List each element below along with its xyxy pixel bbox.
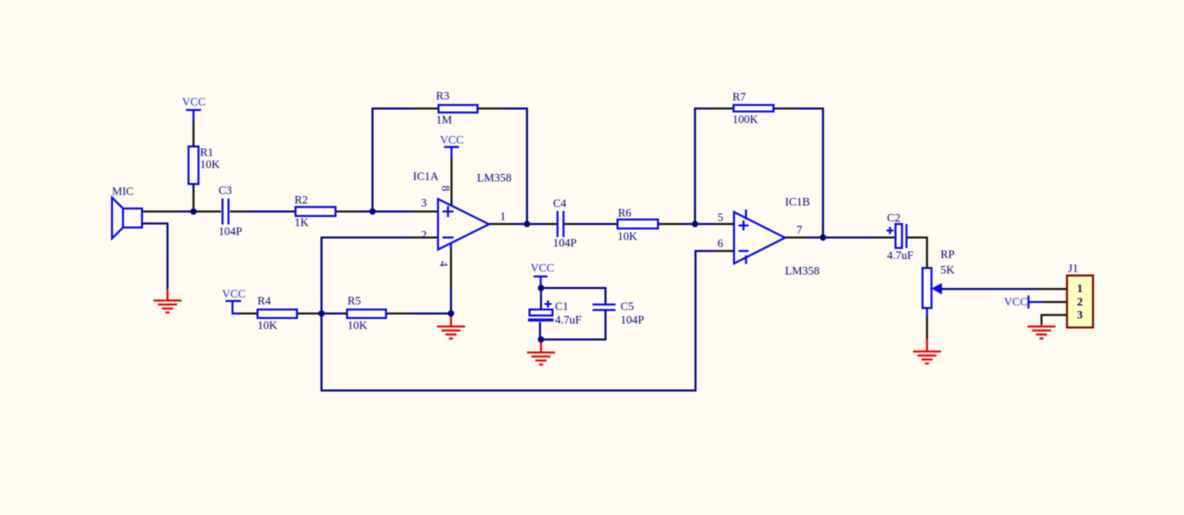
svg-text:VCC: VCC <box>531 263 555 275</box>
svg-text:4: 4 <box>437 261 449 267</box>
svg-text:100K: 100K <box>733 114 759 126</box>
svg-text:10K: 10K <box>258 320 279 332</box>
svg-text:R4: R4 <box>258 296 272 308</box>
svg-text:C4: C4 <box>553 198 567 210</box>
svg-text:10K: 10K <box>618 231 639 243</box>
svg-text:VCC: VCC <box>1004 297 1028 309</box>
svg-text:IC1B: IC1B <box>785 197 810 209</box>
svg-text:6: 6 <box>718 238 724 250</box>
svg-text:4.7uF: 4.7uF <box>887 250 914 262</box>
svg-text:C2: C2 <box>887 213 901 225</box>
svg-text:VCC: VCC <box>440 135 464 147</box>
svg-text:R6: R6 <box>618 208 632 220</box>
svg-text:IC1A: IC1A <box>413 171 439 183</box>
svg-text:MIC: MIC <box>112 186 134 198</box>
svg-text:RP: RP <box>941 249 955 261</box>
svg-text:1M: 1M <box>436 115 452 127</box>
svg-text:C5: C5 <box>621 301 635 313</box>
svg-text:J1: J1 <box>1068 263 1078 275</box>
svg-text:LM358: LM358 <box>477 173 512 185</box>
svg-text:R3: R3 <box>436 91 450 103</box>
svg-text:1K: 1K <box>295 217 310 229</box>
svg-text:R7: R7 <box>733 92 747 104</box>
svg-text:104P: 104P <box>621 315 645 327</box>
svg-text:10K: 10K <box>200 159 221 171</box>
svg-text:10K: 10K <box>348 320 369 332</box>
svg-text:1: 1 <box>500 211 506 223</box>
svg-text:LM358: LM358 <box>785 266 820 278</box>
svg-text:C3: C3 <box>219 185 233 197</box>
svg-text:R2: R2 <box>295 195 309 207</box>
svg-text:8: 8 <box>439 186 451 192</box>
svg-text:5: 5 <box>718 212 724 224</box>
svg-text:7: 7 <box>797 225 803 237</box>
svg-text:1: 1 <box>1077 283 1083 295</box>
svg-text:R1: R1 <box>200 147 214 159</box>
svg-text:VCC: VCC <box>182 97 206 109</box>
svg-text:R5: R5 <box>348 296 362 308</box>
svg-text:2: 2 <box>421 230 427 242</box>
svg-text:3: 3 <box>1077 310 1083 322</box>
svg-text:5K: 5K <box>941 265 956 277</box>
svg-text:VCC: VCC <box>222 289 246 301</box>
svg-text:104P: 104P <box>219 226 243 238</box>
svg-text:3: 3 <box>421 198 427 210</box>
svg-text:2: 2 <box>1077 297 1083 309</box>
svg-text:4.7uF: 4.7uF <box>555 315 582 327</box>
svg-text:C1: C1 <box>555 301 569 313</box>
svg-text:104P: 104P <box>553 238 577 250</box>
